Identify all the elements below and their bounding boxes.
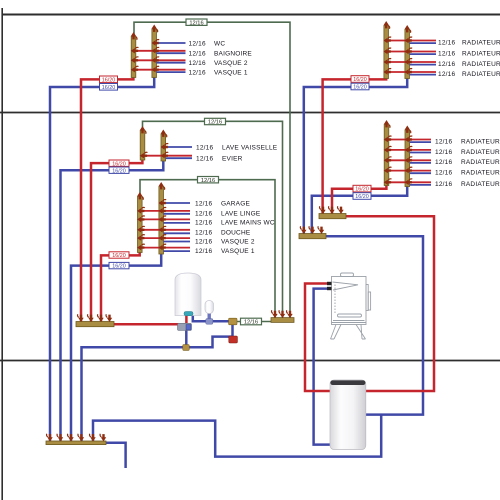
svg-text:12/16: 12/16 — [195, 230, 212, 237]
svg-text:16/20: 16/20 — [355, 194, 369, 200]
svg-text:DOUCHE: DOUCHE — [221, 230, 251, 237]
svg-text:12/16: 12/16 — [435, 138, 452, 145]
svg-text:12/16: 12/16 — [196, 156, 213, 163]
svg-text:12/16: 12/16 — [435, 181, 452, 188]
svg-text:WC: WC — [214, 41, 225, 48]
svg-text:12/16: 12/16 — [201, 178, 215, 184]
svg-text:RADIATEUR CHAMBRE 1: RADIATEUR CHAMBRE 1 — [462, 39, 500, 46]
svg-text:12/16: 12/16 — [195, 201, 212, 208]
svg-text:RADIATEUR SEJOUR: RADIATEUR SEJOUR — [461, 170, 500, 177]
svg-text:16/20: 16/20 — [353, 85, 367, 91]
svg-text:16/20: 16/20 — [112, 253, 126, 259]
svg-text:VASQUE 1: VASQUE 1 — [214, 70, 248, 77]
svg-text:16/20: 16/20 — [112, 264, 126, 270]
svg-text:16/20: 16/20 — [353, 77, 367, 83]
svg-text:RADIATEUR CHAMBRE 3: RADIATEUR CHAMBRE 3 — [462, 71, 500, 78]
svg-text:16/20: 16/20 — [102, 77, 116, 83]
svg-text:12/16: 12/16 — [189, 70, 206, 77]
svg-text:RADIATEUR CHAMBRE 2: RADIATEUR CHAMBRE 2 — [462, 61, 500, 68]
svg-text:12/16: 12/16 — [189, 60, 206, 67]
svg-text:RADIATEUR SDB: RADIATEUR SDB — [462, 50, 500, 57]
svg-text:12/16: 12/16 — [435, 159, 452, 166]
svg-text:12/16: 12/16 — [195, 220, 212, 227]
svg-text:12/16: 12/16 — [195, 248, 212, 255]
svg-text:LAVE VAISSELLE: LAVE VAISSELLE — [222, 145, 278, 152]
svg-text:RADIATEUR CUISINE: RADIATEUR CUISINE — [461, 181, 500, 188]
svg-text:12/16: 12/16 — [195, 239, 212, 246]
svg-text:VASQUE 1: VASQUE 1 — [221, 248, 255, 255]
svg-text:12/16: 12/16 — [438, 61, 455, 68]
svg-text:RADIATEUR SEJOUR: RADIATEUR SEJOUR — [461, 149, 500, 156]
svg-text:12/16: 12/16 — [189, 41, 206, 48]
svg-text:12/16: 12/16 — [189, 20, 203, 26]
svg-text:12/16: 12/16 — [189, 51, 206, 58]
svg-text:16/20: 16/20 — [112, 161, 126, 167]
svg-text:RADIATEUR CHAMBRE: RADIATEUR CHAMBRE — [461, 138, 500, 145]
svg-text:12/16: 12/16 — [435, 149, 452, 156]
svg-text:12/16: 12/16 — [438, 39, 455, 46]
svg-text:LAVE MAINS WC: LAVE MAINS WC — [221, 220, 275, 227]
svg-text:EVIER: EVIER — [222, 156, 243, 163]
svg-text:12/16: 12/16 — [435, 170, 452, 177]
svg-text:16/20: 16/20 — [112, 168, 126, 174]
svg-text:GARAGE: GARAGE — [221, 201, 250, 208]
svg-text:VASQUE 2: VASQUE 2 — [221, 239, 255, 246]
svg-text:12/16: 12/16 — [196, 145, 213, 152]
svg-text:16/20: 16/20 — [102, 85, 116, 91]
svg-text:16/20: 16/20 — [355, 187, 369, 193]
svg-text:LAVE LINGE: LAVE LINGE — [221, 210, 261, 217]
svg-text:BAIGNOIRE: BAIGNOIRE — [214, 51, 252, 58]
svg-text:12/16: 12/16 — [438, 71, 455, 78]
svg-text:RADIATEUR SEJOUR: RADIATEUR SEJOUR — [461, 159, 500, 166]
svg-text:12/16: 12/16 — [195, 210, 212, 217]
svg-text:12/16: 12/16 — [438, 50, 455, 57]
svg-text:VASQUE 2: VASQUE 2 — [214, 60, 248, 67]
svg-text:12/16: 12/16 — [208, 120, 222, 126]
svg-text:12/16: 12/16 — [244, 320, 258, 326]
